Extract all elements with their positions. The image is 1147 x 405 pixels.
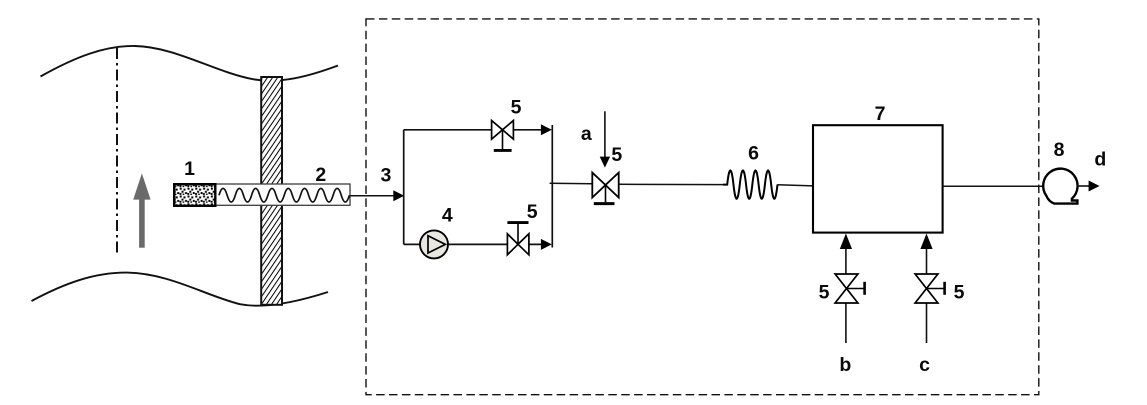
pump 8 symbol bbox=[1043, 169, 1077, 204]
heater wavy element inside line 2 bbox=[219, 188, 349, 202]
svg-text:1: 1 bbox=[184, 158, 195, 180]
svg-text:5: 5 bbox=[954, 282, 965, 304]
svg-text:5: 5 bbox=[511, 96, 522, 118]
heated sample line 2 (box) bbox=[215, 184, 350, 205]
svg-text:5: 5 bbox=[611, 144, 622, 166]
svg-text:b: b bbox=[839, 354, 851, 376]
duct wall bottom curve bbox=[32, 273, 329, 306]
sample line 3 wire bbox=[350, 195, 396, 197]
wire main valve to coil bbox=[619, 183, 724, 185]
analyser box 7 bbox=[813, 125, 943, 232]
valve 5 (line b) bbox=[835, 274, 858, 303]
svg-text:7: 7 bbox=[875, 103, 886, 125]
valve 5 (top branch) bbox=[492, 121, 514, 140]
svg-text:2: 2 bbox=[315, 164, 326, 186]
svg-text:c: c bbox=[919, 354, 930, 376]
inlet b wire (up into analyser) bbox=[845, 246, 847, 274]
span gas inlet a wire bbox=[604, 111, 606, 158]
wire analyser to pump 8 bbox=[943, 185, 1044, 187]
stack wall (hatched) bbox=[261, 77, 282, 305]
svg-text:4: 4 bbox=[442, 204, 453, 226]
arrowhead into right header (bottom) bbox=[541, 239, 552, 250]
valve 5 (bottom branch) bbox=[507, 234, 529, 255]
svg-text:8: 8 bbox=[1054, 139, 1065, 161]
top branch wire bbox=[404, 129, 492, 131]
arrowhead into right header (top) bbox=[541, 124, 552, 135]
svg-text:5: 5 bbox=[819, 282, 830, 304]
branch left vertical wire bbox=[403, 130, 405, 245]
svg-text:3: 3 bbox=[380, 165, 391, 187]
arrowhead line 3 bbox=[393, 190, 404, 201]
duct wall top curve bbox=[41, 46, 339, 81]
svg-text:5: 5 bbox=[527, 201, 538, 223]
wire header to main valve bbox=[550, 182, 593, 185]
svg-text:6: 6 bbox=[748, 143, 759, 165]
inlet c wire (up into analyser) bbox=[926, 246, 928, 274]
arrowhead d bbox=[1089, 181, 1100, 192]
pump 4 bbox=[420, 230, 448, 258]
branch right header wire bbox=[551, 125, 553, 248]
valve 5 (line c) bbox=[915, 274, 938, 303]
svg-text:d: d bbox=[1094, 148, 1106, 170]
duct centerline (dash-dot) bbox=[116, 48, 118, 256]
bottom branch wire bbox=[404, 243, 421, 245]
coil 6 (flexible line) bbox=[723, 170, 778, 198]
flow arrow (gray) bbox=[133, 173, 150, 247]
arrowhead a bbox=[600, 157, 610, 168]
svg-text:a: a bbox=[581, 123, 592, 145]
outlet wire d bbox=[1077, 185, 1090, 187]
wire coil to analyser bbox=[778, 185, 814, 186]
main valve 5 bbox=[592, 173, 618, 198]
enclosure dashed boundary bbox=[366, 19, 1039, 395]
probe filter 1 (stippled) bbox=[174, 184, 215, 206]
